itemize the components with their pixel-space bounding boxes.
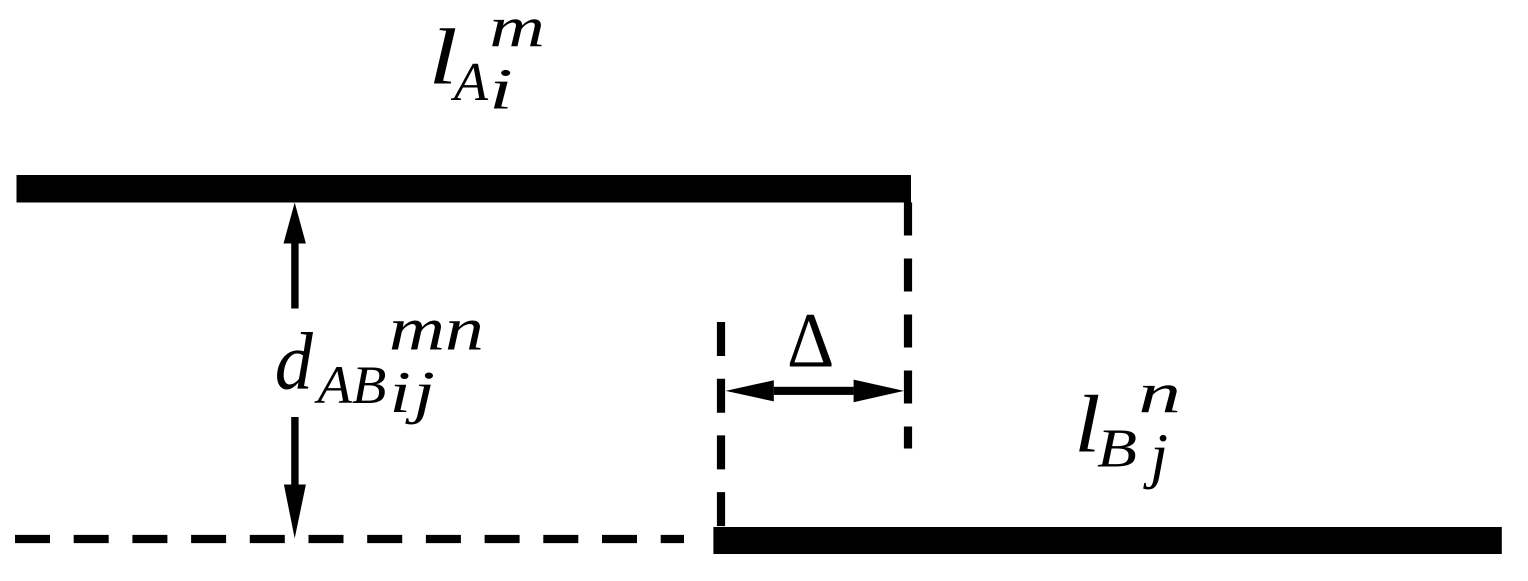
dashed horizontal line extending left from bar B level [15,535,684,543]
vertical distance arrow: up head [284,203,306,244]
svg-text:ij: ij [390,360,438,425]
horizontal offset arrow: left head [726,380,774,401]
svg-text:m: m [489,0,545,59]
svg-text:d: d [275,317,314,407]
dashed vertical line from right end of bar A [904,203,912,449]
svg-text:Δ: Δ [787,297,834,384]
vertical distance arrow: upper shaft [291,243,298,309]
segment bar B (bottom thick line) [713,527,1501,554]
dashed vertical line above left end of bar B [717,322,725,527]
svg-text:mn: mn [389,295,484,364]
horizontal offset arrow: right head [854,380,905,403]
svg-text:n: n [1138,362,1181,426]
vertical distance arrow: lower shaft [291,417,298,485]
svg-text:AB: AB [313,355,386,415]
segment bar A (top thick line) [17,175,912,203]
vertical distance arrow: down head [284,485,306,539]
svg-text:i: i [489,56,513,121]
horizontal offset arrow: shaft [774,387,854,395]
svg-text:A: A [450,52,489,113]
svg-text:B: B [1097,418,1137,479]
